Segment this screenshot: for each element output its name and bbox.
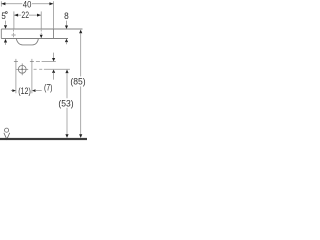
bowl bulge curve (16, 39, 38, 45)
svg-text:(7): (7) (44, 82, 53, 93)
dimension 8 down arrow (65, 26, 68, 29)
bowl right edge down arrowhead (40, 35, 43, 38)
tap hole cross (12, 34, 16, 36)
svg-text:(85): (85) (70, 77, 85, 88)
basin left edge (0, 29, 2, 39)
dimension 85 top arrow (79, 30, 82, 34)
dimension 22 right arrow (37, 14, 41, 17)
dimension 7 bottom tail (53, 73, 55, 80)
basin underside line (1, 38, 68, 40)
waste outlet vertical crosshair (21, 63, 23, 75)
dimension 22 left extension line (13, 11, 15, 29)
dimension 8 bottom tail (66, 42, 68, 45)
waste outlet horizontal crosshair (16, 68, 28, 70)
dimension 22 line (14, 14, 41, 16)
dimension 40 left arrow (1, 2, 5, 5)
dimension 53 line lower (66, 108, 68, 135)
tap hole dashed centerline (13, 30, 15, 39)
dimension 12 left arrow tail (11, 90, 13, 92)
bowl right edge dashed line (40, 30, 42, 35)
basin rim top line (1, 28, 82, 30)
outlet level line dashed (34, 68, 43, 70)
drain connection triangle symbol (4, 133, 10, 140)
drain connection circle symbol (5, 128, 9, 132)
dimension 53 bottom arrow (65, 134, 68, 138)
waste outlet center dot (21, 68, 23, 70)
trap left cross bar (14, 61, 18, 63)
floor line (0, 138, 87, 140)
dimension 53 top arrow (65, 70, 68, 74)
upper trap level line dashed (36, 61, 40, 63)
svg-text:8: 8 (64, 11, 69, 22)
waste outlet circle (18, 65, 26, 73)
dimension 40 line (2, 3, 54, 5)
angle down arrow at rim top (4, 25, 7, 29)
dimension 8 top tail (66, 21, 68, 26)
dimension 40 left extension line (0, 1, 2, 6)
dimension 22 left arrow (14, 14, 18, 17)
dimension 85 line lower (80, 86, 82, 134)
angle up arrow at underside (4, 39, 7, 43)
svg-text:22: 22 (21, 10, 29, 21)
dimension 85 line upper (80, 33, 82, 77)
svg-text:(53): (53) (58, 98, 73, 109)
angle leader line (5, 21, 7, 25)
trap left cross vertical/extension line (15, 59, 17, 93)
dimension 85 bottom arrow (79, 134, 82, 138)
background (0, 0, 87, 144)
dimension 53 line upper (66, 73, 68, 98)
dimension 7 top tail (53, 53, 55, 59)
dimension 12 right arrow tail (35, 90, 42, 92)
dimension 40 right extension line (53, 1, 55, 29)
dimension 40 right arrow (49, 2, 53, 5)
basin right edge (53, 29, 55, 39)
dimension 22 right extension line (40, 11, 42, 29)
dimension 12 right arrow (32, 89, 36, 92)
trap right cross bar (30, 61, 34, 63)
dimension 12 left arrow (12, 89, 16, 92)
upper trap level line solid (42, 61, 56, 63)
dimension 7 up arrow (52, 70, 55, 73)
outlet level line solid (44, 68, 70, 70)
trap right cross vertical/extension line (31, 59, 33, 93)
angle up arrow tail (5, 42, 7, 45)
svg-text:(12): (12) (18, 86, 31, 97)
dimension 8 up arrow (65, 39, 68, 42)
dimension 7 down arrow (52, 58, 55, 61)
